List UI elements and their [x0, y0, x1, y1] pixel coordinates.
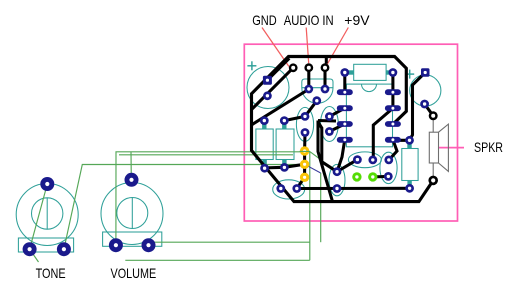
svg-text:TONE: TONE [36, 265, 66, 281]
svg-text:VOLUME: VOLUME [111, 265, 157, 281]
svg-text:GND: GND [252, 12, 277, 28]
svg-text:+9V: +9V [344, 12, 370, 28]
svg-text:AUDIO IN: AUDIO IN [284, 12, 334, 28]
svg-text:SPKR: SPKR [474, 139, 503, 155]
